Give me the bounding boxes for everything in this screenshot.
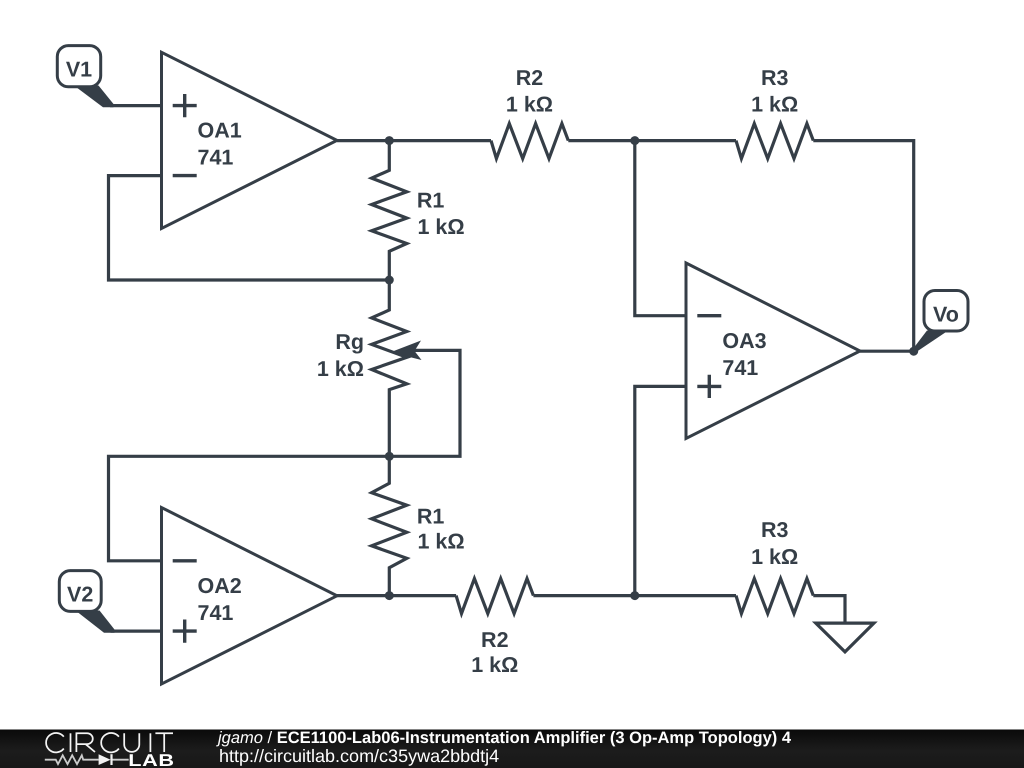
svg-text:1 kΩ: 1 kΩ <box>317 357 364 381</box>
svg-text:OA1: OA1 <box>198 118 242 142</box>
svg-text:jgamo / ECE1100-Lab06-Instrume: jgamo / ECE1100-Lab06-Instrumentation Am… <box>216 729 792 747</box>
svg-text:741: 741 <box>198 146 234 170</box>
svg-text:V2: V2 <box>67 583 93 607</box>
svg-text:R2: R2 <box>516 66 544 90</box>
svg-text:741: 741 <box>722 356 758 380</box>
svg-text:R2: R2 <box>481 628 509 652</box>
svg-text:1 kΩ: 1 kΩ <box>418 530 465 554</box>
svg-text:741: 741 <box>198 601 234 625</box>
svg-text:R3: R3 <box>761 66 789 90</box>
svg-text:1 kΩ: 1 kΩ <box>506 93 553 117</box>
svg-text:1 kΩ: 1 kΩ <box>418 215 465 239</box>
svg-text:1 kΩ: 1 kΩ <box>751 93 798 117</box>
svg-text:OA2: OA2 <box>198 574 242 598</box>
svg-text:R3: R3 <box>761 518 789 542</box>
svg-text:1 kΩ: 1 kΩ <box>751 545 798 569</box>
svg-text:http://circuitlab.com/c35ywa2b: http://circuitlab.com/c35ywa2bbdtj4 <box>219 746 499 766</box>
svg-text:V1: V1 <box>66 58 92 82</box>
svg-text:Vo: Vo <box>933 302 959 326</box>
svg-text:R1: R1 <box>417 505 445 529</box>
svg-text:R1: R1 <box>417 189 445 213</box>
svg-text:1 kΩ: 1 kΩ <box>471 653 518 677</box>
svg-text:LAB: LAB <box>128 751 174 768</box>
svg-text:OA3: OA3 <box>722 329 766 353</box>
svg-text:Rg: Rg <box>335 330 364 354</box>
